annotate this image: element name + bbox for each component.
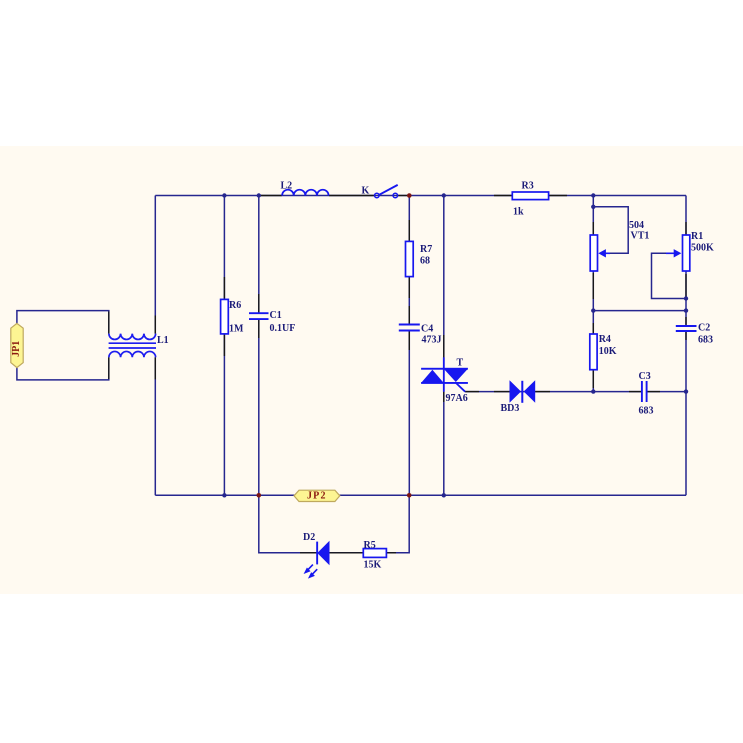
wire D2 R5 branch [259,495,409,553]
svg-text:R5: R5 [364,540,376,551]
wire left bus upper [154,196,156,334]
junction top rail VT1 [591,193,595,197]
pin C1 bottom [258,320,260,338]
pin L1 right lower [154,357,156,379]
resistor R6 [221,299,229,334]
svg-text:JP1: JP1 [11,341,22,357]
pin C4 top [408,306,410,324]
pin R5 right [386,552,396,554]
wire right bus upper [685,196,687,326]
svg-text:R6: R6 [229,300,241,311]
pin VT1 bottom [592,273,594,299]
wire JP1 top [17,311,109,334]
wire JP1 bottom [17,357,109,380]
potentiometer VT1 [590,235,610,271]
inductor L2 [282,190,328,196]
svg-text:R1: R1 [691,231,703,242]
svg-text:683: 683 [698,335,713,346]
svg-text:15K: 15K [364,559,382,570]
svg-text:0.1UF: 0.1UF [270,323,296,334]
pin triac bottom [443,392,445,402]
svg-text:97A6: 97A6 [446,393,468,404]
transformer L1 [109,334,156,358]
pin BD3 left [494,391,510,393]
svg-text:T: T [457,358,464,369]
resistor R4 [590,334,597,370]
pin R6 top [223,277,225,299]
pin VT1 top [592,222,594,235]
svg-text:C4: C4 [421,324,433,335]
pin triac top [443,335,445,357]
svg-text:BD3: BD3 [501,403,520,414]
junction C3 right bus [684,389,688,393]
wire R1 wiper bracket [652,253,687,298]
junction VT1 bracket [591,205,595,209]
pin C3 left [629,391,641,393]
connector JP2 [294,490,340,502]
svg-text:500K: 500K [691,243,714,254]
svg-text:D2: D2 [303,532,315,543]
svg-text:L1: L1 [157,335,169,346]
svg-text:10K: 10K [599,346,617,357]
pin R3 left [494,195,512,197]
svg-text:JP2: JP2 [307,491,327,502]
svg-text:C3: C3 [639,371,651,382]
pin R1 top [685,222,687,235]
junction top rail R6 [222,193,226,197]
pin C1 top [258,294,260,312]
pin L1 left upper [108,312,110,334]
svg-text:C1: C1 [270,310,282,321]
switch K [375,185,398,198]
wire C1 column lower [258,319,260,495]
pin triac gate lead [465,391,479,393]
junction bottom rail R5 red [407,493,412,498]
capacitor C2 [676,326,697,331]
wire C1 column upper [258,196,260,314]
junction bottom rail C1 red [257,493,262,498]
svg-text:R3: R3 [522,181,534,192]
svg-text:K: K [362,186,370,197]
pin R4 bottom [592,370,594,388]
wire top rail [155,195,686,197]
wire VT1 R4 column [592,196,594,392]
triac T [421,357,468,391]
connector JP1 [11,323,23,367]
capacitor C3 [642,381,647,402]
svg-text:68: 68 [420,256,430,267]
wire R7 C4 column lower [408,331,410,496]
diac BD3 [510,380,536,403]
junction bottom rail R6 [222,493,226,497]
svg-text:1k: 1k [513,207,524,218]
pin R6 bottom [223,334,225,356]
schematic background [0,146,743,594]
pin D2 left [300,552,316,554]
pin R3 right [549,195,567,197]
junction bottom rail triac [442,493,446,497]
svg-text:VT1: VT1 [631,231,650,242]
resistor R5 [363,549,386,558]
wire bottom rail [155,494,686,496]
pin L1 right upper [154,316,156,334]
pin R7 top [408,220,410,241]
svg-text:R4: R4 [599,334,611,345]
potentiometer R1 [666,235,690,271]
pin C2 top [685,317,687,325]
junction top rail triac [442,193,446,197]
svg-text:R7: R7 [420,244,432,255]
junction top rail C1 [257,193,261,197]
svg-text:683: 683 [639,405,654,416]
wire R6 column [223,196,225,496]
resistor R3 [512,192,548,200]
junction mid link left [591,308,595,312]
pin BD3 right [535,391,550,393]
wire right bus lower [685,331,687,496]
resistor R7 [406,241,414,276]
pin K right [397,195,408,197]
pin R1 bottom [685,274,687,298]
junction mid link right [684,308,688,312]
wire triac column [443,196,445,496]
pin C4 bottom [408,332,410,351]
pin L1 left lower [108,357,110,379]
LED D2 [304,541,330,579]
wire gate BD3 C3 left [465,391,641,393]
junction R1 bracket [684,296,688,300]
pin R7 bottom [408,277,410,298]
svg-text:1M: 1M [229,324,244,335]
pin C3 right [648,391,661,393]
svg-text:L2: L2 [281,181,293,192]
svg-text:C2: C2 [698,323,710,334]
capacitor C4 [399,325,420,331]
wire mid link [593,310,686,312]
junction R4 bottom [591,389,595,393]
pin C2 bottom [685,331,687,340]
svg-text:504: 504 [629,220,644,231]
pin D2 right and R5 left [330,552,364,554]
wire C3 right [647,391,686,393]
svg-text:473J: 473J [422,335,442,346]
junction top rail R7 red [407,193,412,198]
pin R4 top [592,323,594,334]
capacitor C1 [249,313,269,319]
wire left bus lower [154,357,156,495]
pin L2 left [260,195,282,197]
wire VT1 wiper bracket [593,207,628,254]
pin L2 right and K left [329,195,375,197]
wire R7 C4 column upper [408,196,410,325]
